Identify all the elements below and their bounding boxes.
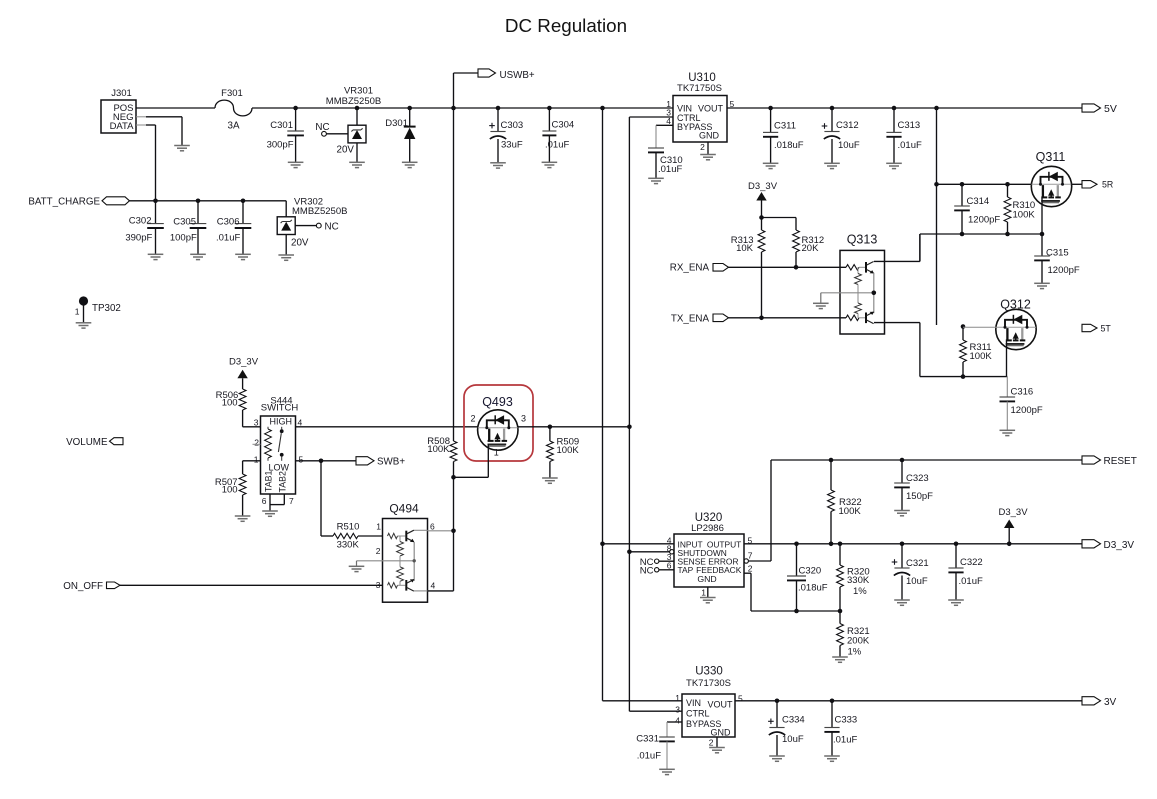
svg-text:20V: 20V (291, 237, 309, 248)
svg-text:100: 100 (222, 485, 238, 496)
svg-text:TAB2: TAB2 (278, 471, 288, 492)
svg-text:VOLUME: VOLUME (66, 437, 108, 448)
svg-text:C311: C311 (774, 121, 796, 132)
svg-text:100K: 100K (970, 351, 993, 362)
svg-text:VOUT: VOUT (698, 104, 724, 114)
svg-text:10uF: 10uF (906, 576, 928, 587)
svg-text:3: 3 (254, 418, 259, 428)
svg-text:20V: 20V (337, 145, 355, 156)
svg-text:SWB+: SWB+ (377, 457, 405, 468)
svg-text:5T: 5T (1101, 323, 1112, 333)
svg-text:F301: F301 (221, 88, 243, 99)
svg-text:2: 2 (470, 414, 475, 424)
svg-text:C315: C315 (1046, 248, 1069, 259)
svg-text:5R: 5R (1102, 180, 1113, 190)
svg-text:2: 2 (376, 546, 381, 556)
svg-text:D3_3V: D3_3V (229, 357, 259, 368)
svg-text:100K: 100K (1013, 210, 1036, 221)
svg-text:MMBZ5250B: MMBZ5250B (292, 206, 347, 217)
svg-text:J301: J301 (111, 88, 132, 99)
svg-text:C333: C333 (835, 715, 858, 726)
svg-text:1200pF: 1200pF (1048, 265, 1080, 276)
svg-text:GND: GND (697, 574, 716, 584)
svg-text:2: 2 (700, 142, 705, 152)
svg-text:Q494: Q494 (389, 502, 419, 516)
svg-text:U330: U330 (695, 666, 723, 678)
svg-text:ON_OFF: ON_OFF (63, 581, 103, 592)
svg-text:LP2986: LP2986 (691, 523, 724, 534)
svg-text:Q493: Q493 (482, 395, 513, 409)
svg-text:C321: C321 (906, 558, 929, 569)
svg-text:TAB1: TAB1 (264, 471, 274, 492)
svg-text:Q313: Q313 (847, 233, 878, 247)
svg-text:C314: C314 (967, 196, 990, 207)
svg-text:D3_3V: D3_3V (999, 507, 1029, 518)
svg-text:C302: C302 (129, 215, 152, 226)
svg-text:VIN: VIN (686, 698, 701, 708)
svg-text:DC Regulation: DC Regulation (505, 15, 627, 36)
svg-text:1%: 1% (848, 646, 862, 657)
svg-text:1200pF: 1200pF (968, 215, 1000, 226)
svg-text:C331: C331 (636, 734, 659, 745)
svg-text:3: 3 (675, 705, 680, 715)
svg-text:1200pF: 1200pF (1011, 405, 1043, 416)
svg-text:330K: 330K (337, 539, 360, 550)
svg-text:100K: 100K (557, 445, 580, 456)
svg-text:3V: 3V (1104, 697, 1117, 708)
svg-text:300pF: 300pF (267, 140, 294, 151)
svg-text:7: 7 (289, 496, 294, 506)
svg-text:VOUT: VOUT (708, 699, 734, 709)
svg-text:TX_ENA: TX_ENA (671, 313, 710, 324)
svg-text:4: 4 (298, 418, 303, 428)
svg-text:5: 5 (299, 455, 304, 465)
svg-text:.01uF: .01uF (959, 576, 983, 587)
svg-text:390pF: 390pF (125, 232, 152, 243)
svg-text:2: 2 (709, 737, 714, 747)
svg-text:C304: C304 (552, 120, 575, 131)
svg-text:4: 4 (675, 716, 680, 726)
svg-text:SWITCH: SWITCH (261, 403, 299, 414)
svg-text:C313: C313 (898, 120, 921, 131)
svg-text:1: 1 (376, 522, 381, 532)
svg-text:C323: C323 (906, 473, 929, 484)
svg-text:R510: R510 (337, 522, 360, 533)
svg-text:GND: GND (711, 728, 732, 738)
svg-text:1: 1 (701, 588, 706, 598)
svg-text:HIGH: HIGH (270, 417, 293, 427)
svg-text:10uF: 10uF (838, 140, 860, 151)
svg-text:2: 2 (748, 564, 753, 574)
svg-text:C312: C312 (836, 120, 859, 131)
svg-text:TAP: TAP (678, 565, 694, 575)
svg-text:MMBZ5250B: MMBZ5250B (326, 96, 381, 107)
svg-text:C320: C320 (799, 565, 822, 576)
svg-text:330K: 330K (847, 575, 870, 586)
svg-text:C305: C305 (173, 216, 196, 227)
svg-text:3A: 3A (228, 121, 240, 132)
svg-text:USWB+: USWB+ (500, 70, 535, 81)
svg-text:TP302: TP302 (92, 303, 121, 314)
svg-text:5V: 5V (1104, 103, 1117, 115)
svg-text:.018uF: .018uF (798, 582, 828, 593)
svg-text:7: 7 (748, 551, 753, 561)
svg-text:RESET: RESET (1104, 456, 1137, 467)
svg-text:C316: C316 (1011, 387, 1034, 398)
svg-text:.01uF: .01uF (545, 140, 569, 151)
svg-text:VR301: VR301 (344, 86, 373, 97)
svg-text:20K: 20K (802, 243, 820, 254)
svg-text:C303: C303 (501, 120, 524, 131)
svg-text:D3_3V: D3_3V (1104, 540, 1135, 551)
svg-text:100K: 100K (427, 444, 450, 455)
svg-text:.01uF: .01uF (637, 750, 661, 761)
svg-text:10K: 10K (736, 243, 754, 254)
svg-text:1: 1 (254, 455, 259, 465)
svg-text:6: 6 (262, 496, 267, 506)
svg-text:.018uF: .018uF (774, 140, 804, 151)
svg-text:2: 2 (254, 438, 259, 448)
svg-text:1: 1 (675, 693, 680, 703)
svg-text:3: 3 (521, 414, 526, 424)
svg-text:DATA: DATA (110, 121, 135, 132)
svg-text:5: 5 (738, 694, 743, 704)
svg-text:C301: C301 (270, 120, 293, 131)
svg-text:10uF: 10uF (782, 734, 804, 745)
svg-text:CTRL: CTRL (686, 709, 710, 719)
svg-text:1: 1 (494, 448, 499, 458)
svg-text:1: 1 (75, 306, 80, 316)
svg-text:BATT_CHARGE: BATT_CHARGE (28, 197, 100, 208)
svg-text:.01uF: .01uF (898, 140, 922, 151)
svg-text:4: 4 (431, 581, 436, 591)
svg-text:GND: GND (699, 130, 720, 140)
svg-text:100K: 100K (839, 506, 862, 517)
svg-text:TK71750S: TK71750S (677, 83, 722, 94)
svg-text:6: 6 (430, 522, 435, 532)
svg-text:NC: NC (325, 221, 339, 232)
svg-text:150pF: 150pF (906, 491, 933, 502)
svg-text:33uF: 33uF (501, 140, 523, 151)
svg-text:TK71730S: TK71730S (686, 678, 731, 689)
svg-text:C334: C334 (782, 715, 805, 726)
svg-text:Q312: Q312 (1000, 298, 1031, 312)
svg-text:.01uF: .01uF (216, 232, 240, 243)
svg-text:.01uF: .01uF (833, 734, 857, 745)
svg-text:.01uF: .01uF (658, 164, 682, 175)
svg-text:1%: 1% (853, 586, 867, 597)
svg-text:D301: D301 (385, 118, 408, 129)
svg-text:D3_3V: D3_3V (748, 181, 778, 192)
svg-text:100pF: 100pF (170, 232, 197, 243)
svg-text:Q311: Q311 (1036, 150, 1066, 164)
svg-text:RX_ENA: RX_ENA (670, 263, 710, 274)
svg-text:100: 100 (222, 397, 238, 408)
svg-text:C322: C322 (960, 557, 983, 568)
svg-text:NC: NC (640, 565, 654, 576)
svg-text:C306: C306 (217, 216, 240, 227)
svg-text:200K: 200K (847, 635, 870, 646)
